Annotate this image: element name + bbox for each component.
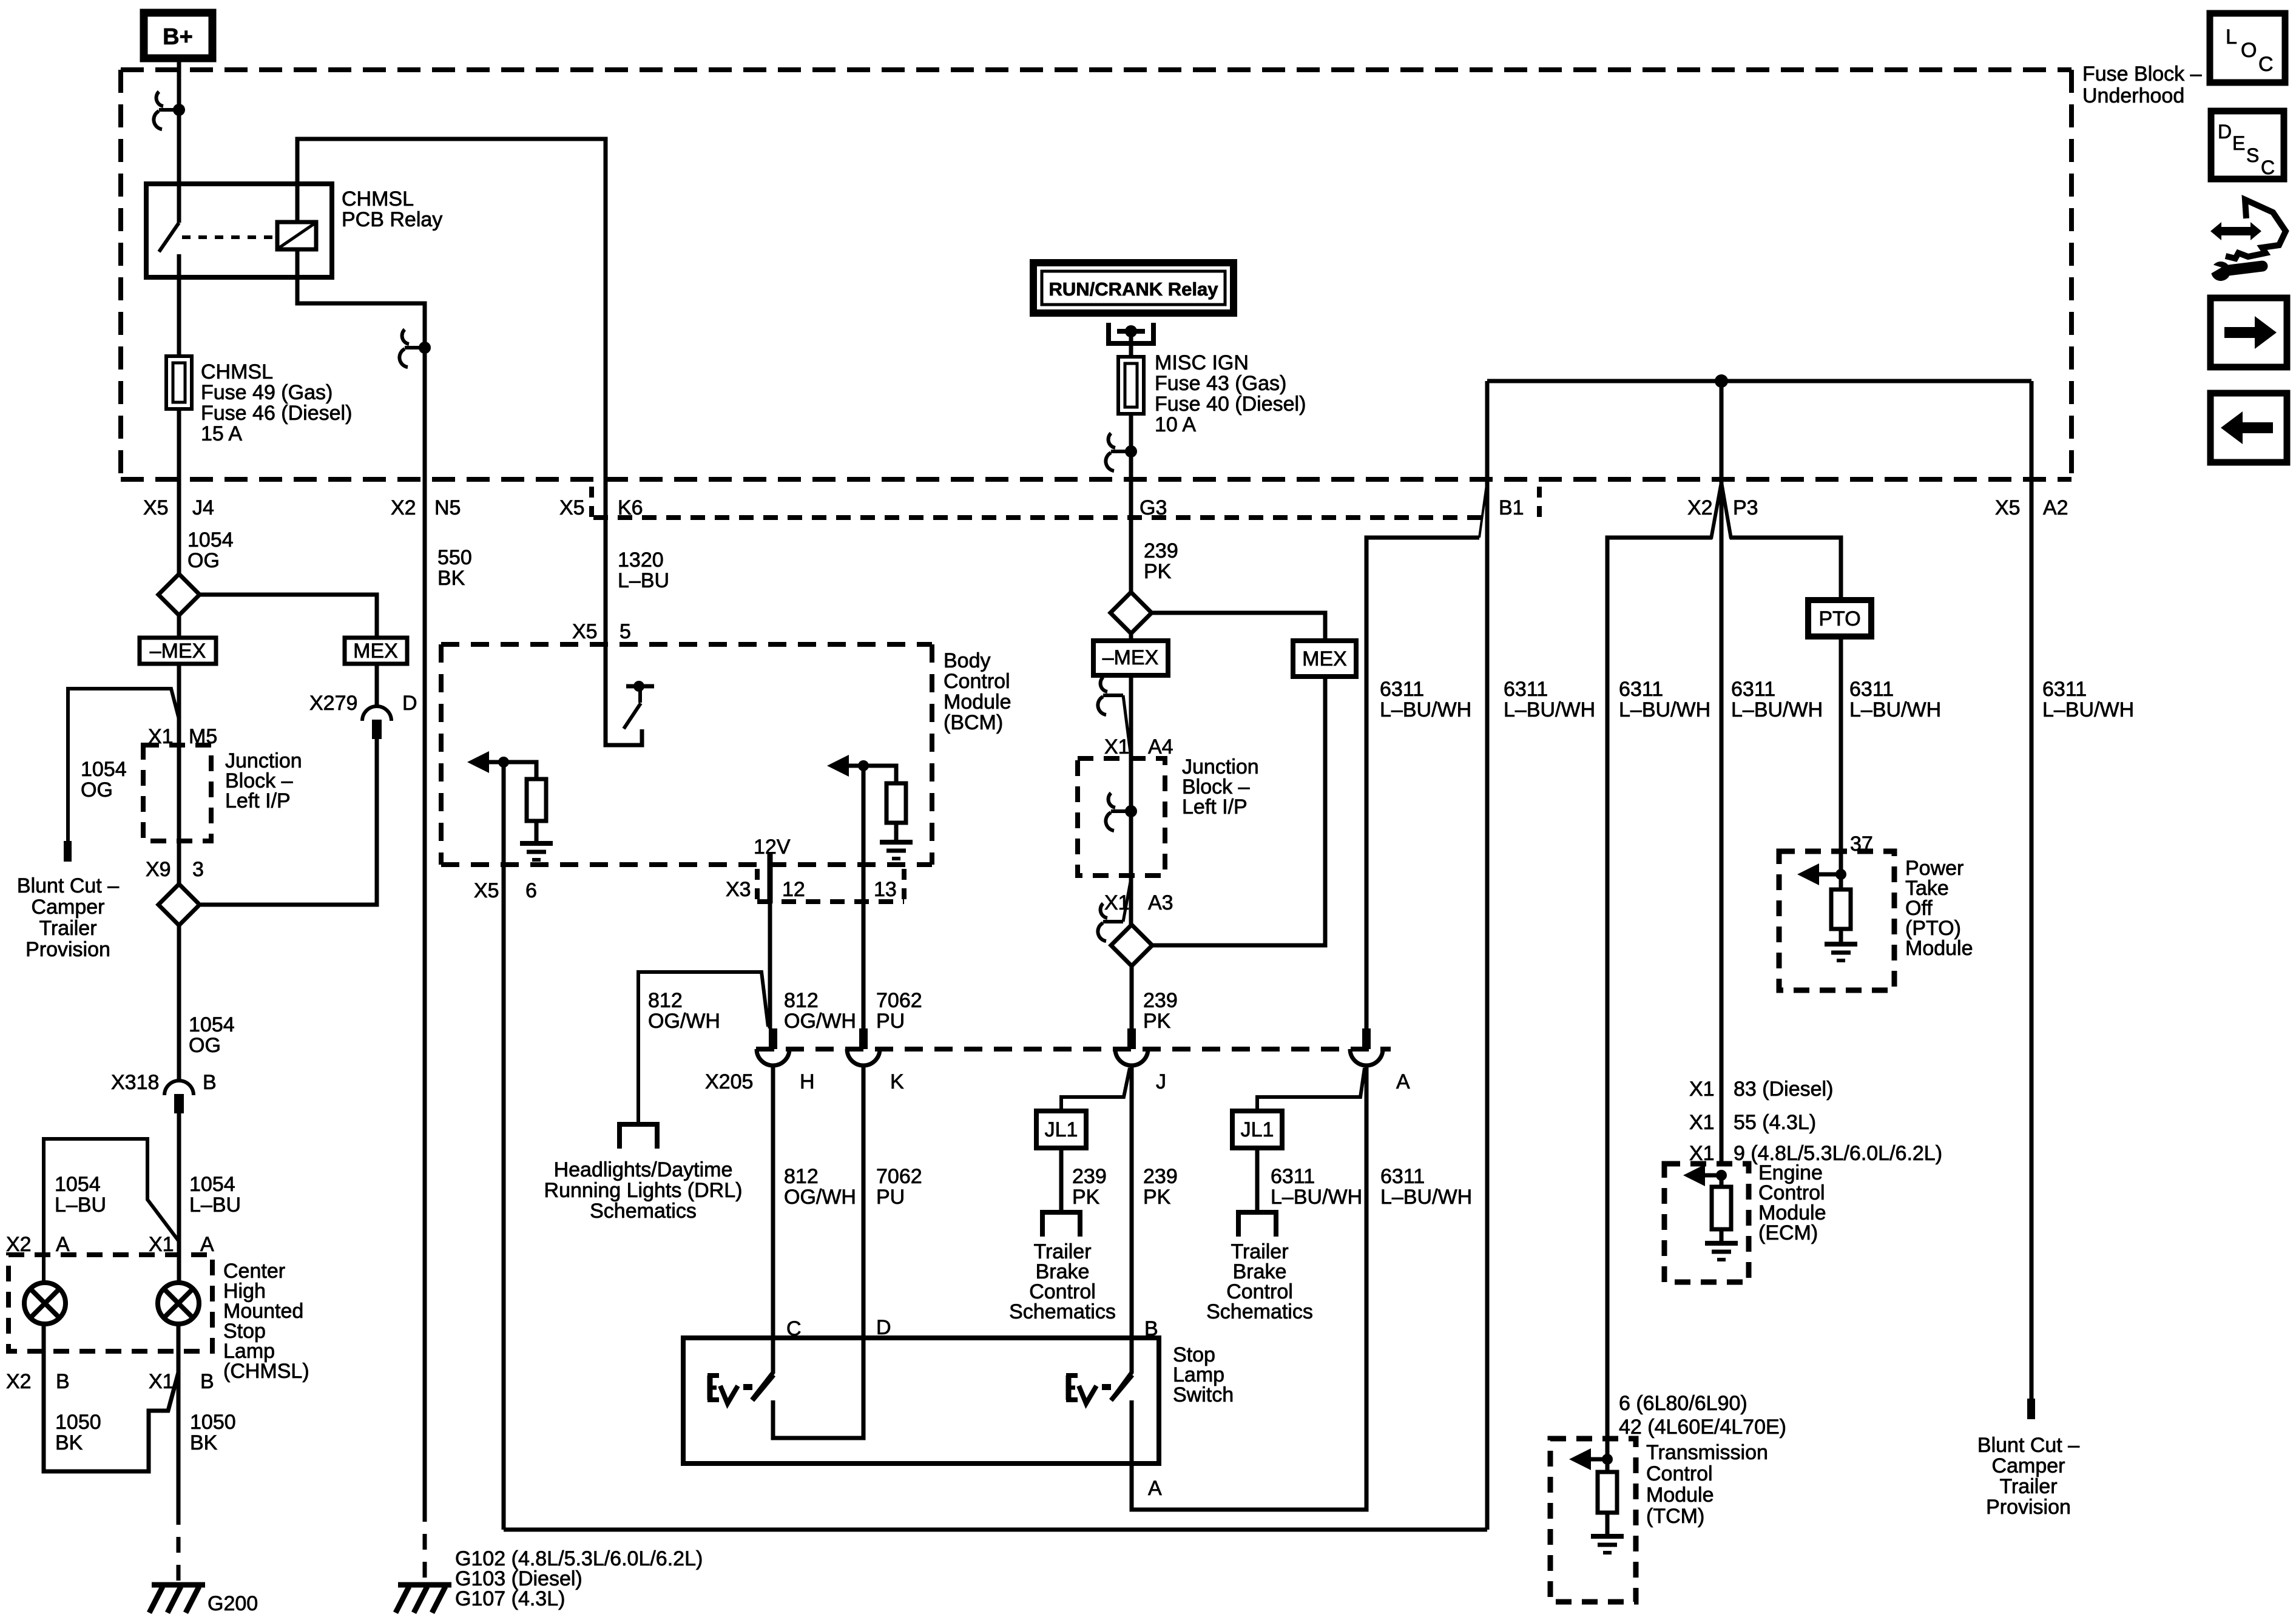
svg-text:BK: BK (190, 1431, 218, 1454)
connector X205 clip J (1127, 1028, 1136, 1049)
splice S1 diamond (158, 574, 200, 615)
svg-text:Fuse 49 (Gas): Fuse 49 (Gas) (201, 381, 333, 404)
wire splice to -MEX holder (177, 615, 181, 638)
wire J to stop lamp B (1130, 1065, 1134, 1338)
clip above X1 A4 (1103, 694, 1123, 697)
icon LOC box (2210, 13, 2285, 83)
svg-text:(TCM): (TCM) (1646, 1505, 1704, 1528)
svg-text:G200: G200 (208, 1592, 258, 1615)
svg-text:6311: 6311 (2042, 678, 2087, 701)
svg-text:A2: A2 (2043, 496, 2068, 519)
svg-text:B: B (203, 1071, 217, 1094)
svg-text:1050: 1050 (55, 1411, 101, 1434)
wire MISC IGN to G3 (1129, 414, 1133, 593)
svg-text:Transmission: Transmission (1646, 1441, 1768, 1464)
connector row secondary dashed line (589, 487, 594, 517)
wire 1054 OG fuse to splice (177, 409, 181, 574)
svg-text:L–BU/WH: L–BU/WH (1849, 698, 1941, 721)
svg-text:5: 5 (620, 620, 631, 643)
Transmission Control Module dashed box (1550, 1439, 1636, 1602)
svg-text:Schematics: Schematics (590, 1200, 697, 1223)
fork to trailer brake schematics right (1238, 1212, 1276, 1237)
ground G200 (152, 1582, 205, 1588)
svg-text:J4: J4 (192, 496, 214, 519)
svg-text:OG/WH: OG/WH (648, 1010, 720, 1033)
12V stub pin 12 (768, 852, 773, 903)
relay switch lever (159, 223, 179, 252)
svg-text:1054: 1054 (55, 1173, 101, 1196)
wire S4 down to X205 J (1130, 966, 1134, 1028)
stop lamp switch output A (1130, 1400, 1134, 1463)
svg-text:K6: K6 (618, 496, 643, 519)
svg-text:J: J (1156, 1070, 1166, 1093)
svg-text:Module: Module (944, 690, 1011, 714)
lamp bulb left (24, 1283, 66, 1324)
Stop Lamp Switch box (683, 1338, 1159, 1463)
svg-text:1054: 1054 (81, 758, 127, 781)
svg-text:812: 812 (648, 989, 683, 1012)
svg-text:C: C (2258, 53, 2274, 76)
svg-text:239: 239 (1143, 989, 1178, 1012)
svg-text:OG/WH: OG/WH (784, 1186, 856, 1209)
wire lamp left ground loop (44, 1324, 178, 1471)
svg-text:X5: X5 (143, 496, 169, 519)
svg-text:PK: PK (1143, 1186, 1171, 1209)
svg-text:6311: 6311 (1731, 678, 1775, 701)
wire BCM output X5-6 (502, 762, 506, 1530)
svg-text:L–BU/WH: L–BU/WH (1271, 1186, 1362, 1209)
junction block left IP dashed box (143, 745, 211, 841)
svg-text:1054: 1054 (189, 1013, 235, 1036)
svg-text:Provision: Provision (1986, 1496, 2071, 1519)
svg-text:L–BU/WH: L–BU/WH (2042, 698, 2134, 721)
svg-text:239: 239 (1144, 539, 1178, 562)
relay coil (277, 222, 316, 249)
svg-text:CHMSL: CHMSL (342, 187, 414, 211)
B+ power terminal (144, 13, 212, 58)
wire 812 OG/WH pin12 to X205 H (768, 902, 772, 1028)
off-page fork to DRL schematics (620, 1124, 657, 1149)
wire JL1 left to fork (1059, 1148, 1064, 1212)
CHMSL lamp dashed box (8, 1255, 212, 1351)
wire BCM X5-6 to bus riser (504, 1528, 1487, 1532)
Engine Control Module dashed box (1664, 1164, 1749, 1282)
splice S2 diamond (158, 884, 200, 925)
BCM internal switch (606, 644, 642, 745)
clip inside junction block (1111, 809, 1131, 813)
relay socket terminal (1109, 323, 1153, 343)
ground G102/G103/G107 (398, 1582, 451, 1588)
branch wire to second lamp (44, 1139, 179, 1283)
svg-text:Provision: Provision (25, 938, 110, 961)
svg-text:OG/WH: OG/WH (784, 1010, 856, 1033)
svg-text:6311: 6311 (1380, 678, 1424, 701)
wire MEX to splice S2 (201, 739, 377, 905)
wire -MEX right through junction block (1129, 675, 1133, 925)
svg-text:Trailer: Trailer (1999, 1475, 2057, 1498)
switch actuator left (707, 1376, 713, 1400)
stop lamp switch contact C (752, 1338, 773, 1400)
svg-text:(CHMSL): (CHMSL) (223, 1360, 309, 1383)
svg-text:–MEX: –MEX (150, 640, 206, 663)
connector B1 jog (1479, 481, 1487, 538)
connector X205 clip K (859, 1028, 868, 1049)
svg-text:CHMSL: CHMSL (201, 360, 273, 383)
JL1 branch right (1257, 1068, 1365, 1111)
wire -MEX through junction block (177, 664, 181, 884)
svg-text:42 (4L60E/4L70E): 42 (4L60E/4L70E) (1619, 1416, 1786, 1439)
svg-text:E: E (2232, 132, 2245, 154)
BCM internal driver arrow and resistor 1 (484, 760, 504, 765)
svg-text:RUN/CRANK Relay: RUN/CRANK Relay (1048, 279, 1218, 300)
wire PTO to module (1839, 636, 1843, 874)
Power Take Off module dashed box (1779, 851, 1894, 990)
svg-text:X279: X279 (309, 692, 357, 715)
fuse holder -MEX right (1093, 641, 1168, 675)
ECM internal arrow resistor ground (1700, 1173, 1721, 1178)
icon harness routing with wrench (2210, 222, 2261, 240)
svg-text:L–BU/WH: L–BU/WH (1619, 698, 1710, 721)
svg-text:X1: X1 (1689, 1078, 1715, 1101)
svg-text:OG: OG (189, 1034, 221, 1057)
clip below X1 A3 (1103, 920, 1123, 923)
svg-text:Body: Body (944, 649, 991, 672)
PTO module internal arrow resistor ground (1814, 873, 1841, 877)
svg-text:K: K (890, 1070, 904, 1093)
switch actuator right (1066, 1376, 1072, 1400)
fuse holder JL1 right (1232, 1111, 1282, 1148)
RUN/CRANK Relay box (1033, 263, 1234, 313)
Fuse Block - Underhood dashed border (121, 67, 2071, 72)
TCM internal arrow resistor ground (1586, 1457, 1607, 1462)
svg-text:Schematics: Schematics (1206, 1300, 1313, 1323)
svg-text:G107 (4.3L): G107 (4.3L) (455, 1587, 565, 1610)
svg-text:(ECM): (ECM) (1758, 1221, 1818, 1244)
JL1 branch left (1061, 1068, 1130, 1111)
wire 7062 PU pin13 to X205 K (862, 766, 866, 1028)
icon prev-page arrow box (2210, 393, 2287, 462)
fuse holder -MEX (140, 638, 216, 664)
svg-text:OG: OG (187, 549, 220, 572)
fuse - CHMSL Fuse 49/46 15A (166, 356, 192, 409)
wire MEX right down to splice S4 (1152, 677, 1325, 945)
svg-text:1050: 1050 (190, 1411, 236, 1434)
svg-text:PCB Relay: PCB Relay (342, 208, 442, 231)
fuse - MISC IGN Fuse 43/40 10A (1118, 357, 1144, 414)
fuse holder JL1 left (1036, 1111, 1086, 1148)
svg-text:MEX: MEX (353, 640, 398, 663)
svg-text:Switch: Switch (1173, 1383, 1234, 1406)
svg-text:X2: X2 (1687, 496, 1713, 519)
svg-text:Camper: Camper (32, 896, 105, 919)
svg-text:MISC IGN: MISC IGN (1155, 351, 1249, 374)
DRL branch wire 812 OG/WH (638, 972, 768, 1124)
svg-text:D: D (876, 1316, 891, 1339)
svg-text:X1: X1 (1689, 1111, 1715, 1134)
svg-text:550: 550 (437, 546, 472, 569)
svg-text:OG: OG (81, 778, 113, 802)
svg-text:B: B (1144, 1317, 1158, 1340)
svg-text:BK: BK (437, 567, 465, 590)
svg-text:10 A: 10 A (1155, 413, 1196, 436)
svg-text:L: L (2226, 25, 2237, 49)
wire S3 to right -MEX (1129, 633, 1133, 641)
svg-text:L–BU/WH: L–BU/WH (1380, 1186, 1472, 1209)
svg-text:Fuse 40 (Diesel): Fuse 40 (Diesel) (1155, 393, 1306, 416)
wire relay output to CHMSL fuse (177, 254, 181, 356)
svg-text:13: 13 (874, 878, 897, 901)
blunt cut branch wire 1054 OG (68, 689, 179, 841)
svg-text:P3: P3 (1733, 496, 1758, 519)
svg-text:A4: A4 (1148, 735, 1173, 758)
connector X2 P3 hourglass (1711, 482, 1721, 539)
svg-text:D: D (2218, 121, 2232, 143)
svg-text:7062: 7062 (876, 1165, 922, 1188)
blunt cut terminal (64, 841, 72, 862)
svg-text:PU: PU (876, 1010, 905, 1033)
svg-text:X3: X3 (726, 878, 751, 901)
stop lamp switch contact B (1112, 1338, 1132, 1400)
svg-text:Camper: Camper (1992, 1454, 2065, 1477)
wire B+ to relay (177, 58, 181, 223)
svg-text:Headlights/Daytime: Headlights/Daytime (554, 1158, 733, 1181)
svg-text:X5: X5 (1995, 496, 2021, 519)
Body Control Module dashed box (441, 642, 932, 647)
wire 550 BK down to ground (423, 348, 427, 1506)
svg-text:X318: X318 (111, 1071, 159, 1094)
svg-text:PU: PU (876, 1186, 905, 1209)
relay K - CHMSL PCB Relay box (146, 184, 332, 277)
svg-text:Left I/P: Left I/P (1182, 795, 1248, 819)
wire stop lamp A to X205 A riser (1132, 1065, 1366, 1510)
icon next-page arrow box (2210, 298, 2287, 367)
svg-text:Fuse Block –: Fuse Block – (2082, 62, 2202, 86)
svg-text:Module: Module (1646, 1484, 1714, 1507)
svg-text:Module: Module (1905, 937, 1973, 960)
svg-text:X2: X2 (391, 496, 416, 519)
fuse holder MEX (345, 638, 407, 664)
wire splice to MEX holder (200, 595, 377, 638)
wire 6311 bus (1487, 379, 2031, 383)
svg-text:(BCM): (BCM) (944, 711, 1003, 734)
svg-text:BK: BK (55, 1431, 83, 1454)
lamp bulb right (158, 1283, 199, 1324)
svg-text:X1: X1 (1104, 735, 1130, 758)
svg-text:3: 3 (192, 858, 204, 881)
svg-text:C: C (2261, 157, 2275, 178)
svg-text:X5: X5 (559, 496, 585, 519)
svg-text:239: 239 (1143, 1165, 1178, 1188)
svg-text:B: B (200, 1370, 214, 1393)
svg-text:A3: A3 (1148, 891, 1173, 914)
svg-text:L–BU/WH: L–BU/WH (1504, 698, 1595, 721)
wire X5 A2 riser to blunt cut (2030, 381, 2034, 1399)
blunt cut terminal right (2027, 1399, 2035, 1419)
svg-text:6 (6L80/6L90): 6 (6L80/6L90) (1619, 1392, 1747, 1415)
connector X205 clip H (769, 1028, 777, 1049)
svg-text:PK: PK (1144, 560, 1172, 583)
svg-text:L–BU/WH: L–BU/WH (1731, 698, 1823, 721)
svg-text:Running Lights (DRL): Running Lights (DRL) (544, 1179, 743, 1202)
svg-text:Blunt Cut –: Blunt Cut – (17, 874, 119, 897)
svg-text:JL1: JL1 (1045, 1118, 1078, 1141)
svg-text:6311: 6311 (1380, 1165, 1425, 1188)
svg-text:L–BU: L–BU (189, 1193, 241, 1217)
svg-text:MEX: MEX (1302, 647, 1347, 670)
wire B1 to X205 A (1366, 538, 1479, 1028)
svg-text:1054: 1054 (189, 1173, 235, 1196)
svg-text:Control: Control (1646, 1462, 1713, 1485)
svg-text:PK: PK (1143, 1010, 1171, 1033)
BCM internal driver arrow and resistor 2 (844, 764, 863, 768)
svg-text:1320: 1320 (618, 549, 664, 572)
svg-text:S: S (2246, 144, 2259, 166)
wire S2 down to X318 (177, 925, 181, 1080)
svg-text:6311: 6311 (1504, 678, 1548, 701)
splice S3 diamond (1110, 592, 1152, 633)
svg-text:15 A: 15 A (201, 422, 242, 445)
svg-text:Underhood: Underhood (2082, 84, 2184, 107)
svg-text:6311: 6311 (1271, 1165, 1315, 1188)
wire 812 OG/WH to stop lamp C (771, 1065, 775, 1338)
svg-text:812: 812 (784, 1165, 819, 1188)
svg-text:D: D (402, 692, 417, 715)
svg-text:X1: X1 (149, 1370, 174, 1393)
svg-text:A: A (1396, 1070, 1410, 1093)
junction block right dashed box (1078, 758, 1165, 876)
splice clip on 550 BK wire (405, 346, 425, 349)
svg-text:X5: X5 (572, 620, 598, 643)
PTO fuse holder box (1808, 600, 1871, 636)
wire P3 branch to TCM riser (1607, 538, 1712, 1459)
svg-text:Fuse 43 (Gas): Fuse 43 (Gas) (1155, 372, 1286, 395)
svg-text:C: C (786, 1317, 802, 1340)
svg-text:A: A (1148, 1477, 1162, 1500)
svg-text:B1: B1 (1499, 496, 1524, 519)
svg-text:PTO: PTO (1818, 607, 1860, 630)
svg-text:83 (Diesel): 83 (Diesel) (1734, 1078, 1833, 1101)
svg-text:Blunt Cut –: Blunt Cut – (1977, 1434, 2079, 1457)
stop lamp switch lower contact C-D link (773, 1338, 863, 1438)
wire 1054 L-BU to CHMSL lamp (177, 1113, 181, 1283)
svg-text:B+: B+ (163, 24, 193, 50)
svg-text:B: B (56, 1370, 70, 1393)
svg-text:Left I/P: Left I/P (225, 789, 291, 812)
wire bus to B1 riser (1485, 381, 1490, 1530)
fuse holder MEX right (1293, 641, 1356, 677)
connector X205 clip A (1362, 1028, 1371, 1049)
wire JL1 right to fork (1255, 1148, 1260, 1212)
svg-text:7062: 7062 (876, 989, 922, 1012)
icon DESC box (2211, 111, 2284, 179)
wire relay coil low side to 550 BK (297, 249, 425, 348)
wire lamp right ground 1050 BK (177, 1324, 181, 1509)
svg-text:X9: X9 (146, 858, 171, 881)
svg-text:N5: N5 (434, 496, 461, 519)
svg-text:PK: PK (1072, 1186, 1100, 1209)
fork to trailer brake schematics left (1042, 1212, 1080, 1237)
svg-text:Schematics: Schematics (1009, 1300, 1116, 1323)
wire 7062 PU to stop lamp D (862, 1065, 866, 1338)
wire P3 branch to PTO riser (1730, 538, 1841, 600)
svg-text:X5: X5 (474, 879, 499, 902)
svg-text:1054: 1054 (187, 528, 234, 552)
svg-text:–MEX: –MEX (1102, 646, 1159, 669)
svg-text:6311: 6311 (1619, 678, 1663, 701)
splice clip on B+ wire (159, 108, 179, 112)
svg-text:H: H (800, 1070, 815, 1093)
splice clip on MISC IGN wire (1111, 450, 1131, 453)
svg-text:JL1: JL1 (1241, 1118, 1274, 1141)
svg-text:239: 239 (1072, 1165, 1107, 1188)
splice S4 diamond (1111, 925, 1152, 966)
svg-text:L–BU/WH: L–BU/WH (1380, 698, 1471, 721)
svg-text:Fuse 46 (Diesel): Fuse 46 (Diesel) (201, 402, 352, 425)
svg-text:812: 812 (784, 989, 819, 1012)
svg-text:6311: 6311 (1849, 678, 1894, 701)
svg-text:G3: G3 (1140, 496, 1167, 519)
wire X2 P3 to ECM (1720, 381, 1724, 1164)
svg-text:X205: X205 (705, 1070, 753, 1093)
in-line connector X205 dashed line (756, 1047, 1391, 1052)
svg-text:Control: Control (944, 670, 1010, 693)
svg-text:6: 6 (525, 879, 537, 902)
svg-text:X2: X2 (6, 1370, 32, 1393)
svg-text:12: 12 (782, 878, 805, 901)
svg-text:L–BU: L–BU (618, 569, 669, 592)
svg-text:O: O (2241, 39, 2257, 62)
svg-text:Trailer: Trailer (39, 917, 96, 940)
wire relay coil to K6 (1320 L-BU) (297, 139, 606, 644)
svg-text:L–BU: L–BU (55, 1193, 106, 1217)
relay actuator dashed link (182, 235, 274, 239)
svg-text:55 (4.3L): 55 (4.3L) (1734, 1111, 1816, 1134)
wire S3 to right MEX (1152, 613, 1325, 641)
